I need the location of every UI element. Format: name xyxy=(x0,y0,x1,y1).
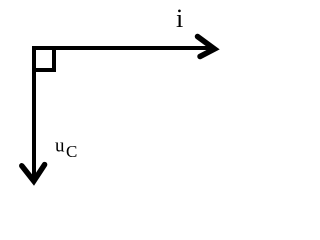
arrowhead down (uC direction) xyxy=(22,165,45,181)
wire vertical axis shaft xyxy=(32,46,36,179)
svg-text:i: i xyxy=(176,4,183,33)
arrowhead right (current direction) xyxy=(198,37,215,57)
svg-text:C: C xyxy=(66,142,77,161)
svg-text:u: u xyxy=(55,136,65,157)
right angle marker xyxy=(32,48,54,70)
wire horizontal axis shaft xyxy=(32,46,212,50)
